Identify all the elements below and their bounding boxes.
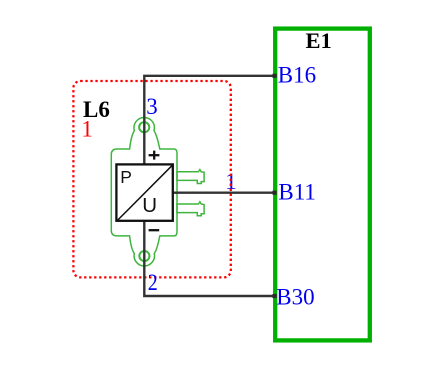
svg-text:B30: B30 [276,284,314,309]
svg-text:P: P [120,167,132,187]
svg-text:2: 2 [148,270,158,295]
svg-text:B11: B11 [278,180,316,205]
svg-text:U: U [142,194,157,217]
svg-text:1: 1 [81,117,93,142]
svg-text:B16: B16 [278,63,316,88]
svg-text:3: 3 [146,94,158,119]
svg-text:E1: E1 [305,28,331,53]
